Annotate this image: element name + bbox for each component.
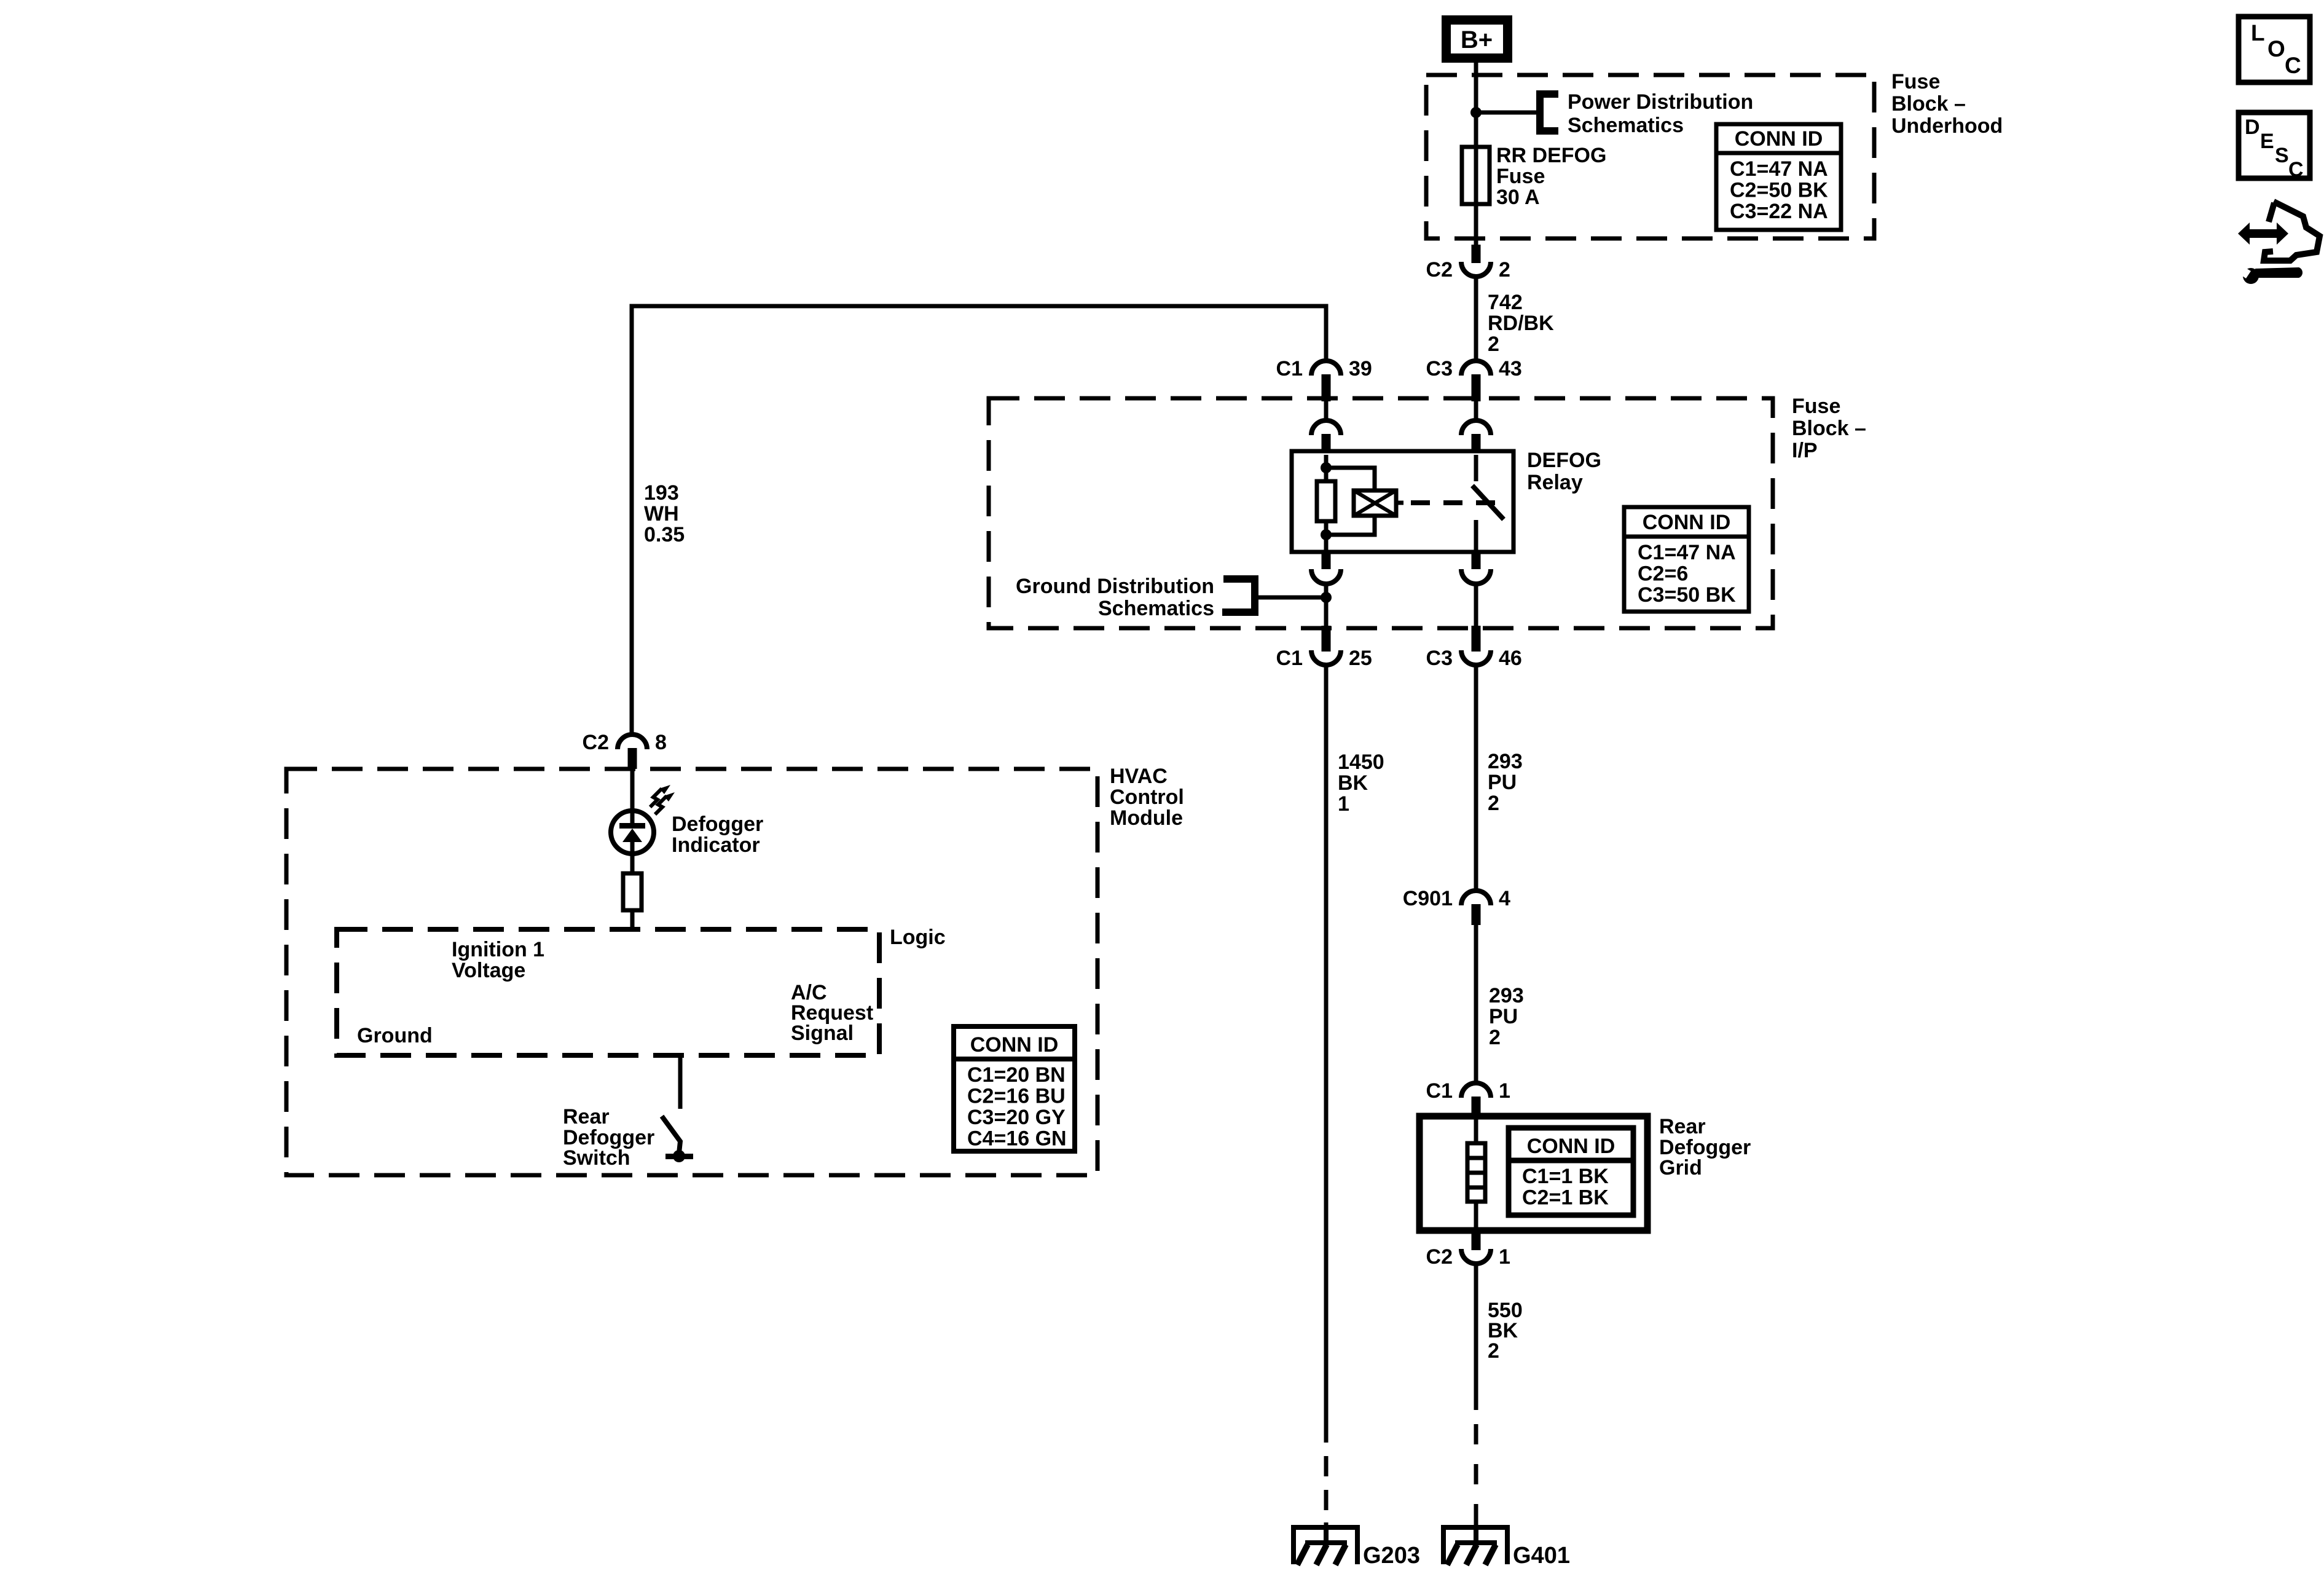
svg-text:O: O (2267, 36, 2285, 61)
svg-text:2: 2 (1488, 1339, 1499, 1363)
svg-text:C3=50 BK: C3=50 BK (1638, 583, 1736, 607)
svg-text:Indicator: Indicator (672, 833, 760, 857)
svg-text:RR DEFOG: RR DEFOG (1496, 144, 1606, 167)
svg-text:293: 293 (1488, 750, 1523, 773)
svg-text:C: C (2285, 53, 2301, 78)
relay exit terminal right (1461, 552, 1491, 584)
relay coil branch (1321, 455, 1375, 490)
svg-text:Control: Control (1110, 786, 1184, 809)
svg-text:1: 1 (1499, 1079, 1510, 1103)
svg-text:DEFOG: DEFOG (1527, 449, 1601, 472)
wire C2 8 to indicator (630, 769, 635, 873)
fuse RR DEFOG 30 A (1462, 144, 1606, 209)
wire 293 PU 2 lower (1476, 925, 1524, 1083)
svg-text:Schematics: Schematics (1568, 114, 1684, 137)
label DEFOG Relay (1527, 449, 1601, 494)
svg-text:Fuse: Fuse (1792, 395, 1840, 418)
connector C901 pin 4 (1403, 887, 1510, 925)
conn table HVAC control module (954, 1026, 1075, 1151)
svg-text:2: 2 (1488, 333, 1499, 356)
wire 1450 BK 1 (1326, 665, 1384, 1443)
wire 193 WH 0.35 from HVAC to relay coil (632, 306, 1326, 734)
svg-text:2: 2 (1499, 258, 1510, 282)
wire coil bottom (1321, 516, 1375, 552)
svg-text:G203: G203 (1363, 1543, 1420, 1569)
resistor indicator (623, 873, 642, 929)
svg-text:Ground Distribution: Ground Distribution (1016, 575, 1214, 598)
svg-text:C3=22 NA: C3=22 NA (1730, 200, 1828, 223)
svg-text:C2: C2 (583, 731, 609, 754)
svg-text:Power Distribution: Power Distribution (1568, 90, 1753, 114)
svg-text:1: 1 (1499, 1245, 1510, 1269)
svg-text:Rear: Rear (1659, 1115, 1706, 1138)
label A/C Request Signal (791, 981, 873, 1045)
svg-text:CONN ID: CONN ID (1643, 511, 1731, 534)
svg-text:Block –: Block – (1891, 92, 1966, 116)
svg-text:1450: 1450 (1338, 750, 1384, 774)
ground G401 (1441, 1525, 1570, 1569)
conn table rear defogger grid (1509, 1128, 1633, 1215)
svg-text:46: 46 (1499, 647, 1522, 670)
relay DEFOG box (1292, 451, 1513, 552)
svg-text:293: 293 (1489, 984, 1524, 1007)
svg-text:Switch: Switch (563, 1146, 630, 1170)
svg-text:Logic: Logic (890, 926, 946, 949)
relay coil winding (1354, 490, 1396, 516)
svg-text:C1: C1 (1276, 647, 1303, 670)
legend LOC box (2239, 17, 2310, 82)
svg-text:8: 8 (655, 731, 667, 754)
svg-text:E: E (2260, 130, 2274, 153)
connector C2 pin 2 underhood (1426, 245, 1510, 282)
label Fuse Block Underhood (1891, 70, 2003, 138)
svg-text:C3: C3 (1426, 647, 1453, 670)
svg-text:C: C (2288, 158, 2304, 181)
connector C3 pin 43 (1426, 357, 1522, 401)
svg-text:WH: WH (644, 502, 679, 526)
wire 293 PU 2 upper (1476, 665, 1523, 891)
svg-text:C2: C2 (1426, 1245, 1453, 1269)
svg-text:C2=6: C2=6 (1638, 562, 1688, 586)
connector C1 pin 39 (1276, 357, 1372, 401)
fuse block I/P dashed box (989, 398, 1773, 628)
label Defogger Indicator (672, 813, 763, 857)
svg-text:Rear: Rear (563, 1105, 610, 1128)
svg-text:Schematics: Schematics (1098, 597, 1214, 620)
svg-text:Signal: Signal (791, 1022, 854, 1045)
legend adjust icon (2237, 202, 2320, 284)
conn table underhood (1716, 124, 1841, 230)
connector C1 pin 1 grid (1426, 1079, 1510, 1116)
rear defogger switch (662, 1055, 693, 1162)
wire 550 BK 2 (1476, 1264, 1523, 1410)
svg-text:Relay: Relay (1527, 471, 1583, 494)
svg-text:C4=16 GN: C4=16 GN (967, 1127, 1067, 1151)
svg-text:Block –: Block – (1792, 417, 1866, 440)
svg-text:C1=20 BN: C1=20 BN (967, 1063, 1066, 1087)
svg-text:2: 2 (1488, 792, 1499, 815)
svg-text:193: 193 (644, 481, 679, 505)
label Rear Defogger Switch (563, 1105, 654, 1170)
grid heating element (1467, 1116, 1485, 1231)
svg-text:C2=50 BK: C2=50 BK (1730, 179, 1828, 202)
svg-text:S: S (2275, 144, 2289, 167)
relay exit terminal left (1311, 552, 1341, 584)
relay socket terminal right (1461, 401, 1491, 452)
relay socket terminal left (1311, 401, 1341, 452)
connector C3 pin 46 (1426, 626, 1522, 670)
svg-text:Grid: Grid (1659, 1156, 1702, 1179)
node battery feed junction (1470, 107, 1482, 118)
svg-text:RD/BK: RD/BK (1488, 312, 1554, 335)
svg-text:G401: G401 (1513, 1543, 1570, 1569)
svg-text:25: 25 (1349, 647, 1372, 670)
svg-text:B+: B+ (1461, 26, 1493, 53)
svg-text:C1=47 NA: C1=47 NA (1638, 541, 1736, 564)
svg-text:Ignition 1: Ignition 1 (452, 938, 544, 961)
svg-text:Voltage: Voltage (452, 959, 525, 982)
HVAC control module dashed box (286, 769, 1097, 1175)
ground G203 (1291, 1525, 1420, 1569)
svg-text:4: 4 (1499, 887, 1510, 910)
svg-text:C2=1 BK: C2=1 BK (1522, 1186, 1609, 1210)
svg-text:C2=16 BU: C2=16 BU (967, 1085, 1066, 1108)
svg-text:CONN ID: CONN ID (1735, 127, 1823, 151)
svg-text:C1=1 BK: C1=1 BK (1522, 1165, 1609, 1188)
svg-text:39: 39 (1349, 357, 1372, 380)
svg-text:Fuse: Fuse (1496, 165, 1545, 188)
svg-text:Module: Module (1110, 806, 1183, 830)
connector C2 pin 1 grid (1426, 1231, 1510, 1269)
svg-text:D: D (2245, 116, 2260, 139)
svg-text:1: 1 (1338, 792, 1349, 816)
wire 742 RD/BK 2 (1476, 277, 1554, 361)
svg-text:2: 2 (1489, 1026, 1501, 1049)
svg-text:BK: BK (1338, 771, 1368, 795)
logic dashed box (337, 929, 879, 1055)
wire dashed to ground G203 (1324, 1456, 1329, 1540)
svg-text:Fuse: Fuse (1891, 70, 1940, 93)
connector C2 pin 8 HVAC (583, 731, 667, 769)
conn table fuse block I/P (1624, 507, 1749, 612)
fuse block underhood dashed box (1426, 75, 1874, 238)
legend DESC box (2239, 112, 2310, 181)
callout Power Distribution Schematics (1476, 90, 1753, 137)
wire relay coil to C1 25 (1324, 584, 1329, 631)
svg-text:30 A: 30 A (1496, 186, 1540, 209)
svg-text:0.35: 0.35 (644, 523, 685, 546)
label Rear Defogger Grid (1659, 1115, 1751, 1179)
battery terminal B+ (1442, 15, 1512, 63)
svg-text:PU: PU (1488, 771, 1517, 794)
svg-text:Underhood: Underhood (1891, 114, 2003, 138)
svg-text:C1: C1 (1276, 357, 1303, 380)
svg-text:I/P: I/P (1792, 439, 1818, 462)
svg-text:PU: PU (1489, 1005, 1518, 1028)
callout Ground Distribution Schematics (1016, 575, 1326, 620)
svg-text:43: 43 (1499, 357, 1522, 380)
resistor relay coil shunt (1317, 481, 1335, 521)
relay switch contacts (1472, 455, 1504, 552)
connector C1 pin 25 (1276, 626, 1372, 670)
wire relay switch to C3 46 (1474, 584, 1478, 631)
svg-text:CONN ID: CONN ID (970, 1033, 1059, 1057)
svg-text:C1: C1 (1426, 1079, 1453, 1103)
node ground distribution junction (1321, 592, 1332, 603)
svg-text:Defogger: Defogger (672, 813, 763, 836)
wire dashed to ground G401 (1474, 1424, 1478, 1525)
svg-text:C901: C901 (1403, 887, 1453, 910)
svg-text:HVAC: HVAC (1110, 765, 1168, 788)
label Ignition 1 Voltage (452, 938, 544, 982)
svg-text:C1=47 NA: C1=47 NA (1730, 157, 1828, 181)
LED defogger indicator (611, 785, 675, 854)
svg-text:742: 742 (1488, 291, 1523, 314)
svg-text:Ground: Ground (357, 1024, 433, 1047)
svg-text:C2: C2 (1426, 258, 1453, 282)
relay actuation dashed link (1396, 501, 1497, 505)
wire fuse to connector C2 (1474, 204, 1478, 245)
svg-text:C3=20 GY: C3=20 GY (967, 1106, 1066, 1129)
svg-text:L: L (2251, 20, 2265, 45)
svg-text:CONN ID: CONN ID (1527, 1135, 1615, 1158)
wire B+ to RR DEFOG fuse (1474, 63, 1478, 147)
svg-text:C3: C3 (1426, 357, 1453, 380)
label HVAC Control Module (1110, 765, 1184, 830)
rear defogger grid box (1419, 1116, 1647, 1231)
label Fuse Block I/P (1792, 395, 1866, 462)
